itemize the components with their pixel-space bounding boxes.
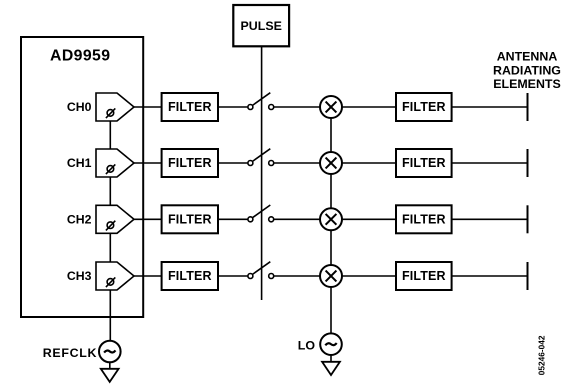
wire switch S3 to mixer M3 <box>274 218 320 220</box>
switch S2 <box>248 149 274 166</box>
wire filter F8 to antenna 4 <box>452 275 528 277</box>
wire mixer M2 to filter F6 <box>342 162 396 164</box>
antenna element 4 <box>527 262 529 290</box>
wire filter F1 to switch S1 <box>218 106 248 108</box>
wire CH0 to CH1 clock chain <box>109 121 111 149</box>
phase shifter CH3 <box>96 262 134 290</box>
wire mixer chain M2-M3 <box>330 174 332 208</box>
mixer M4 <box>320 265 342 287</box>
switch S4 <box>248 262 274 279</box>
svg-text:CH0: CH0 <box>67 100 92 114</box>
svg-text:ELEMENTS: ELEMENTS <box>493 77 560 91</box>
oscillator LO <box>320 333 342 355</box>
wire mixer M3 to filter F7 <box>342 218 396 220</box>
switch S3 <box>248 205 274 222</box>
wire mixer M1 to filter F5 <box>342 106 396 108</box>
wire mixer M4 to filter F8 <box>342 275 396 277</box>
svg-text:CH2: CH2 <box>67 213 92 227</box>
svg-text:PULSE: PULSE <box>241 19 282 33</box>
wire filter F6 to antenna 2 <box>452 162 528 164</box>
svg-text:REFCLK: REFCLK <box>43 346 97 360</box>
phase shifter CH2 <box>96 205 134 233</box>
wire CH3 to filter <box>134 275 162 277</box>
filter F3 <box>162 205 218 233</box>
wire CH1 to filter <box>134 162 162 164</box>
svg-text:FILTER: FILTER <box>402 213 446 227</box>
wire switch S1 to mixer M1 <box>274 106 320 108</box>
phase symbol CH2 <box>106 221 115 231</box>
wire filter F5 to antenna 1 <box>452 106 528 108</box>
svg-text:FILTER: FILTER <box>168 213 212 227</box>
svg-text:ANTENNA: ANTENNA <box>497 50 558 64</box>
wire CH1 to CH2 clock chain <box>109 177 111 205</box>
phase shifter CH1 <box>96 149 134 177</box>
wire mixer M4 to LO <box>330 287 332 333</box>
mixer M1 <box>320 96 342 118</box>
ground LO <box>322 362 340 375</box>
filter F2 <box>162 149 218 177</box>
svg-text:CH3: CH3 <box>67 269 92 283</box>
phase shifter CH0 <box>96 93 134 121</box>
wire filter F2 to switch S2 <box>218 162 248 164</box>
PULSE block <box>233 5 289 46</box>
svg-text:CH1: CH1 <box>67 156 92 170</box>
mixer M2 <box>320 152 342 174</box>
wire mixer chain M3-M4 <box>330 230 332 265</box>
svg-text:FILTER: FILTER <box>402 269 446 283</box>
wire CH0 to filter <box>134 106 162 108</box>
svg-text:LO: LO <box>298 339 316 353</box>
svg-text:05246-042: 05246-042 <box>537 335 547 375</box>
phase symbol CH1 <box>106 164 115 174</box>
ground REFCLK <box>101 369 119 382</box>
svg-text:RADIATING: RADIATING <box>493 64 561 78</box>
AD9959 block U1 <box>21 37 143 317</box>
filter F7 <box>396 205 452 233</box>
antenna element 1 <box>527 93 529 121</box>
wire mixer chain M1-M2 <box>330 118 332 152</box>
wire filter F4 to switch S4 <box>218 275 248 277</box>
filter F4 <box>162 262 218 290</box>
svg-text:FILTER: FILTER <box>402 156 446 170</box>
wire filter F3 to switch S3 <box>218 218 248 220</box>
oscillator REFCLK <box>99 341 121 363</box>
mixer M3 <box>320 208 342 230</box>
wire switch S4 to mixer M4 <box>274 275 320 277</box>
wire filter F7 to antenna 3 <box>452 218 528 220</box>
phase symbol CH0 <box>106 108 115 118</box>
phase symbol CH3 <box>106 277 115 287</box>
svg-text:FILTER: FILTER <box>168 156 212 170</box>
antenna element 2 <box>527 149 529 177</box>
wire switch S2 to mixer M2 <box>274 162 320 164</box>
switch S1 <box>248 93 274 110</box>
wire CH2 to filter <box>134 218 162 220</box>
wire CH2 to CH3 clock chain <box>109 233 111 262</box>
filter F5 <box>396 93 452 121</box>
wire REFCLK to ground <box>109 362 111 369</box>
wire pulse control bus <box>261 46 263 300</box>
filter F8 <box>396 262 452 290</box>
wire CH3 to REFCLK <box>109 290 111 341</box>
filter F1 <box>162 93 218 121</box>
svg-text:AD9959: AD9959 <box>50 48 110 65</box>
svg-text:FILTER: FILTER <box>402 100 446 114</box>
wire LO to ground <box>330 355 332 362</box>
svg-text:FILTER: FILTER <box>168 269 212 283</box>
svg-text:FILTER: FILTER <box>168 100 212 114</box>
antenna element 3 <box>527 205 529 233</box>
filter F6 <box>396 149 452 177</box>
